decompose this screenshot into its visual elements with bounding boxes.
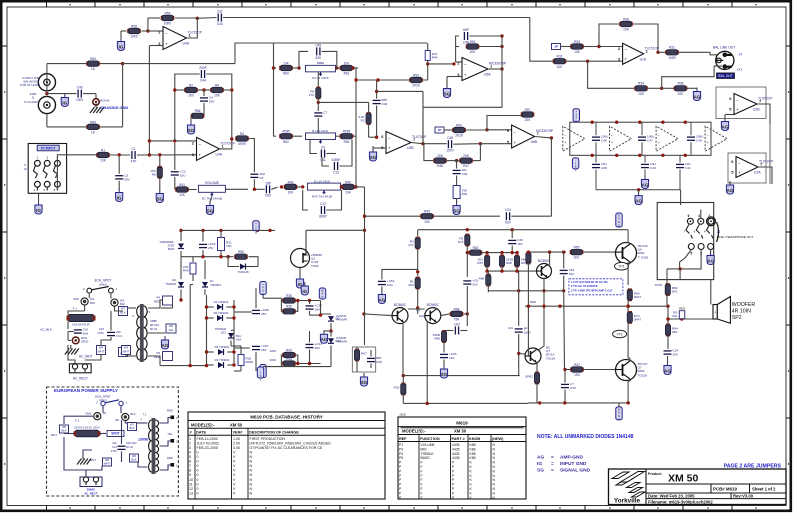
svg-text:W8: W8 (105, 458, 110, 462)
svg-text:N: N (250, 460, 253, 464)
svg-text:F: F (421, 491, 423, 495)
svg-text:XX3: XX3 (737, 68, 743, 72)
svg-text:P4: P4 (399, 452, 403, 456)
svg-text:FEB-14-2002: FEB-14-2002 (197, 437, 218, 441)
svg-text:10K0: 10K0 (269, 358, 276, 362)
svg-text:63V: 63V (315, 56, 322, 60)
svg-text:R87: R87 (477, 261, 483, 265)
svg-text:16V: 16V (569, 272, 575, 276)
svg-text:10K: 10K (283, 61, 290, 65)
svg-text:10K: 10K (345, 191, 352, 195)
svg-text:TO92: TO92 (311, 264, 319, 268)
svg-text:F: F (421, 474, 423, 478)
svg-text:K6A: K6A (236, 338, 241, 342)
svg-text:U5B: U5B (407, 146, 414, 150)
svg-text:+: + (624, 57, 627, 62)
svg-text:R40: R40 (345, 180, 351, 184)
svg-text:100V: 100V (446, 149, 454, 153)
svg-text:1: 1 (189, 437, 191, 441)
svg-text:2: 2 (189, 441, 191, 445)
svg-text:BAL LINE OUT: BAL LINE OUT (713, 46, 735, 50)
svg-text:6463: 6463 (419, 314, 426, 318)
svg-text:TO126: TO126 (546, 356, 555, 360)
svg-text:P2 INPUT: P2 INPUT (41, 147, 55, 151)
svg-text:SG: SG (361, 380, 368, 385)
svg-text:AG: AG (727, 188, 734, 193)
svg-text:0R1: 0R1 (672, 290, 678, 294)
svg-text:F: F (421, 478, 423, 482)
svg-text:4435: 4435 (452, 447, 460, 451)
svg-text:WHT: WHT (104, 462, 110, 466)
svg-text:PCB AT HORZ: PCB AT HORZ (20, 83, 40, 87)
svg-text:16V: 16V (449, 356, 455, 360)
svg-text:+: + (513, 140, 516, 145)
svg-text:C14: C14 (112, 445, 117, 449)
svg-text:25V: 25V (261, 312, 267, 316)
svg-text:K88: K88 (470, 456, 476, 460)
svg-text:U4/TL072_R56/10K0_R58/10K0_C43: U4/TL072_R56/10K0_R58/10K0_C43/2U2 ADDED (250, 441, 332, 445)
svg-text:R25: R25 (394, 386, 400, 390)
svg-text:0R1: 0R1 (672, 330, 678, 334)
svg-text:+: + (388, 146, 391, 151)
svg-text:C34: C34 (387, 283, 393, 287)
svg-text:R32: R32 (557, 55, 563, 59)
svg-text:R68: R68 (434, 337, 440, 341)
svg-text:R51: R51 (470, 40, 476, 44)
svg-text:BC560C: BC560C (427, 303, 440, 307)
svg-text:RED: RED (167, 456, 173, 460)
svg-text:+: + (736, 107, 739, 112)
svg-text:AC_RECT: AC_RECT (84, 491, 98, 495)
svg-text:1K0: 1K0 (574, 256, 580, 260)
svg-text:(0Am): (0Am) (99, 282, 107, 286)
svg-text:−: − (165, 31, 168, 36)
svg-text:3A/6: 3A/6 (73, 297, 79, 301)
svg-text:FIRST PRODUCTION: FIRST PRODUCTION (250, 437, 286, 441)
svg-text:100V: 100V (76, 98, 84, 102)
svg-text:BLK: BLK (131, 412, 136, 416)
svg-text:2V04KB: 2V04KB (336, 314, 346, 318)
svg-text:6.8NF: 6.8NF (332, 158, 341, 162)
svg-text:N: N (250, 450, 253, 454)
svg-text:R53: R53 (413, 73, 419, 77)
svg-text:25V: 25V (208, 246, 214, 250)
svg-text:Product: Product (648, 472, 662, 476)
svg-text:T1: T1 (143, 413, 147, 417)
svg-text:R43: R43 (288, 180, 294, 184)
svg-text:W6: W6 (132, 454, 137, 458)
svg-text:CHASSIS GND: CHASSIS GND (101, 105, 129, 110)
svg-text:J106: J106 (399, 413, 406, 417)
svg-text:10K0: 10K0 (269, 349, 276, 353)
svg-text:C40: C40 (77, 86, 83, 90)
svg-text:W11: W11 (672, 314, 678, 318)
svg-text:PCB# M619: PCB# M619 (713, 487, 737, 492)
svg-text:PART #: PART # (452, 437, 466, 441)
svg-text:R41: R41 (179, 183, 185, 187)
svg-text:RED: RED (154, 300, 160, 304)
svg-text:C46: C46 (447, 136, 453, 140)
svg-text:−: − (513, 129, 516, 134)
svg-text:WHT: WHT (123, 350, 130, 354)
svg-text:4: 4 (189, 450, 191, 454)
svg-text:AG: AG (722, 125, 729, 130)
svg-text:N: N (250, 464, 253, 468)
svg-text:22n: 22n (113, 441, 118, 445)
svg-text:U4A: U4A (183, 42, 190, 46)
svg-text:0: 0 (197, 491, 199, 495)
svg-text:R50: R50 (456, 123, 462, 127)
svg-text:AC_WHT: AC_WHT (79, 355, 93, 359)
svg-text:XM 50: XM 50 (668, 473, 699, 485)
svg-text:N: N (250, 487, 253, 491)
svg-text:F: F (421, 487, 423, 491)
svg-text:B.LIN 14C8: B.LIN 14C8 (314, 180, 330, 184)
svg-text:GR62: GR62 (525, 375, 533, 379)
svg-text:REF: REF (399, 437, 407, 441)
svg-text:MID: MID (421, 447, 428, 451)
svg-text:4K9: 4K9 (408, 283, 414, 287)
svg-text:275V: 275V (111, 449, 117, 453)
svg-text:C13: C13 (333, 170, 339, 174)
svg-text:C40: C40 (650, 166, 656, 170)
svg-text:20K: 20K (470, 50, 477, 54)
svg-text:1K0: 1K0 (188, 94, 194, 98)
svg-text:C12: C12 (320, 202, 326, 206)
svg-text:R42: R42 (286, 348, 292, 352)
svg-text:6: 6 (189, 460, 191, 464)
svg-text:10K: 10K (288, 191, 295, 195)
svg-text:4435: 4435 (452, 452, 460, 456)
svg-text:F: F (421, 469, 423, 473)
svg-text:−: − (624, 47, 627, 52)
svg-text:10K: 10K (100, 159, 107, 163)
svg-text:W7: W7 (130, 422, 135, 426)
svg-text:C49: C49 (462, 172, 468, 176)
svg-text:R4: R4 (240, 132, 244, 136)
svg-text:20K: 20K (463, 154, 470, 158)
svg-text:680P: 680P (319, 214, 326, 218)
svg-text:SG: SG (156, 197, 163, 202)
svg-text:C11: C11 (320, 158, 326, 162)
svg-text:2 TO mm Y8 ACROSS: 2 TO mm Y8 ACROSS (571, 284, 598, 288)
svg-text:U1A: U1A (640, 57, 647, 61)
svg-text:IG: IG (302, 289, 307, 294)
svg-text:4R 10IN: 4R 10IN (732, 309, 751, 315)
svg-text:DATE: DATE (196, 430, 207, 434)
svg-text:R57: R57 (525, 108, 531, 112)
svg-text:AMP-GND: AMP-GND (560, 455, 583, 461)
svg-text:+: + (464, 72, 467, 77)
svg-text:F: F (421, 496, 423, 500)
svg-text:BAR: BAR (168, 247, 174, 251)
svg-text:36D: 36D (673, 311, 678, 315)
svg-text:25V: 25V (261, 348, 267, 352)
svg-text:2u2: 2u2 (217, 10, 223, 14)
svg-text:N: N (250, 469, 253, 473)
svg-text:15K: 15K (226, 244, 232, 248)
svg-text:M619: M619 (456, 420, 468, 425)
svg-text:0: 0 (197, 478, 199, 482)
svg-text:B.LIN 14C8: B.LIN 14C8 (313, 76, 329, 80)
svg-text:R62: R62 (473, 246, 479, 250)
svg-text:+: + (198, 152, 201, 157)
svg-text:63V: 63V (505, 221, 512, 225)
svg-text:MC33078P: MC33078P (536, 129, 554, 133)
svg-text:N: N (250, 491, 253, 495)
svg-text:5: 5 (690, 252, 692, 256)
svg-text:C45: C45 (315, 43, 321, 47)
svg-text:+: + (165, 41, 168, 46)
svg-text:10K: 10K (179, 193, 186, 197)
svg-text:−: − (388, 136, 391, 141)
svg-text:4K99: 4K99 (238, 142, 246, 146)
svg-text:AG: AG (707, 259, 714, 264)
svg-text:P1: P1 (399, 443, 403, 447)
svg-text:C43: C43 (217, 22, 223, 26)
svg-text:1K5: 1K5 (458, 240, 464, 244)
svg-text:0: 0 (197, 460, 199, 464)
svg-text:47K: 47K (309, 93, 315, 97)
svg-text:Date: Wed Feb 23, 2005: Date: Wed Feb 23, 2005 (648, 493, 695, 498)
svg-text:R50: R50 (238, 250, 244, 254)
svg-text:6n8: 6n8 (83, 332, 88, 336)
svg-text:R58: R58 (454, 307, 460, 311)
svg-text:0: 0 (197, 487, 199, 491)
svg-text:R48: R48 (437, 164, 443, 168)
svg-text:SG: SG (207, 209, 214, 214)
svg-text:IG: IG (537, 461, 542, 467)
svg-text:AG: AG (664, 369, 671, 374)
svg-text:R31: R31 (669, 46, 675, 50)
svg-text:160V: 160V (524, 331, 532, 335)
svg-text:(NEW): (NEW) (492, 437, 504, 441)
svg-text:W2: W2 (115, 418, 120, 422)
svg-text:4: 4 (698, 214, 700, 218)
svg-text:RED: RED (154, 355, 160, 359)
svg-text:RED: RED (167, 409, 173, 413)
svg-text:10K: 10K (638, 92, 645, 96)
svg-text:CSA 8A FD 6V: CSA 8A FD 6V (72, 323, 90, 327)
svg-text:R64: R64 (90, 57, 96, 61)
svg-text:J2: J2 (24, 167, 27, 171)
svg-text:SG: SG (441, 372, 448, 377)
svg-text:JP: JP (554, 45, 558, 49)
svg-text:275V: 275V (97, 331, 104, 335)
svg-text:SG: SG (444, 92, 451, 97)
svg-text:D6 YM4002: D6 YM4002 (215, 345, 230, 349)
svg-text:2K26: 2K26 (412, 84, 420, 88)
svg-text:FUNCTION: FUNCTION (420, 437, 440, 441)
svg-text:R36: R36 (286, 305, 292, 309)
svg-text:R86: R86 (479, 277, 485, 281)
svg-text:SG: SG (188, 128, 195, 133)
svg-text:TP1: TP1 (618, 265, 624, 269)
svg-text:RED: RED (530, 300, 536, 304)
svg-text:AC_BLK: AC_BLK (40, 328, 52, 332)
svg-text:R66: R66 (195, 109, 201, 113)
svg-text:C6: C6 (259, 176, 263, 180)
svg-text:C60: C60 (265, 194, 271, 198)
svg-text:R88: R88 (506, 261, 512, 265)
svg-text:16V: 16V (315, 346, 321, 350)
svg-text:10K: 10K (344, 61, 351, 65)
svg-text:VER#: VER# (233, 430, 244, 434)
svg-text:INPUT GND: INPUT GND (560, 461, 587, 467)
svg-text:10K: 10K (574, 50, 581, 54)
svg-text:60 Hz: 60 Hz (150, 327, 158, 331)
svg-text:WHT: WHT (90, 458, 96, 462)
svg-text:AG: AG (537, 455, 544, 461)
svg-text:VOLUME: VOLUME (421, 443, 436, 447)
svg-text:R2: R2 (361, 119, 365, 123)
svg-text:GR20: GR20 (81, 340, 89, 344)
svg-text:R45: R45 (424, 210, 430, 214)
svg-text:0: 0 (197, 464, 199, 468)
svg-text:R4?: R4? (574, 363, 580, 367)
svg-text:4435: 4435 (452, 456, 460, 460)
svg-text:BLK: BLK (131, 458, 136, 462)
svg-text:SG: SG (537, 468, 544, 474)
svg-text:TO218: TO218 (638, 373, 648, 377)
svg-text:100R: 100R (668, 56, 676, 60)
svg-text:BAL OUT: BAL OUT (718, 74, 733, 78)
svg-text:75R: 75R (454, 318, 461, 322)
svg-text:10K0: 10K0 (164, 22, 172, 26)
svg-text:Rev:V3.00: Rev:V3.00 (733, 493, 754, 498)
svg-text:453R: 453R (282, 130, 290, 134)
svg-text:B.LIN 14C8: B.LIN 14C8 (312, 129, 328, 133)
svg-text:C28: C28 (376, 360, 382, 364)
svg-text:3A/6: 3A/6 (85, 412, 91, 416)
svg-text:R60: R60 (283, 72, 289, 76)
svg-text:SP2: SP2 (732, 315, 742, 321)
svg-text:BLK: BLK (120, 302, 125, 306)
svg-text:P5: P5 (399, 456, 403, 460)
svg-text:XM 50: XM 50 (230, 422, 243, 427)
svg-text:J3: J3 (717, 230, 721, 234)
svg-text:R62: R62 (283, 140, 289, 144)
svg-text:K88: K88 (470, 447, 476, 451)
svg-text:4V8 BAR: 4V8 BAR (336, 340, 347, 344)
svg-text:BASS: BASS (421, 456, 431, 460)
svg-text:W1: W1 (103, 411, 108, 415)
svg-text:TL072CP: TL072CP (645, 46, 660, 50)
svg-text:JULY-03-2002: JULY-03-2002 (197, 441, 220, 445)
svg-text:TL072CP: TL072CP (221, 141, 236, 145)
svg-text:Sheet 1 of 2: Sheet 1 of 2 (752, 487, 776, 492)
svg-text:R35: R35 (286, 294, 292, 298)
svg-text:0R47: 0R47 (634, 318, 642, 322)
svg-text:C33: C33 (570, 386, 576, 390)
svg-text:20K: 20K (437, 154, 444, 158)
svg-text:K88: K88 (470, 443, 476, 447)
svg-text:10K: 10K (557, 65, 564, 69)
svg-text:U6B: U6B (531, 140, 538, 144)
svg-text:YM4148: YM4148 (237, 270, 249, 274)
svg-text:YM4004: YM4004 (210, 283, 221, 287)
svg-text:3.00: 3.00 (233, 446, 240, 450)
svg-text:D5 YM4002: D5 YM4002 (214, 311, 229, 315)
svg-text:C62: C62 (454, 323, 460, 327)
svg-text:N: N (250, 478, 253, 482)
svg-text:R34: R34 (638, 82, 644, 86)
svg-text:W7R9: W7R9 (655, 283, 663, 287)
svg-text:BC560C: BC560C (394, 303, 407, 307)
svg-text:C7: C7 (323, 111, 327, 115)
svg-text:AC_RECT: AC_RECT (73, 377, 88, 381)
svg-text:C46: C46 (382, 102, 388, 106)
svg-text:U2A: U2A (754, 171, 761, 175)
svg-text:EUROPEAN POWER SUPPLY: EUROPEAN POWER SUPPLY (54, 388, 118, 393)
svg-text:−: − (738, 160, 741, 165)
svg-text:10K: 10K (623, 28, 630, 32)
svg-text:MODEL(S):-: MODEL(S):- (191, 422, 215, 427)
svg-text:IG: IG (117, 196, 122, 201)
svg-text:BC550C: BC550C (538, 259, 551, 263)
svg-text:R61: R61 (344, 72, 350, 76)
svg-text:50 Hz: 50 Hz (126, 445, 134, 449)
svg-text:0: 0 (197, 455, 199, 459)
svg-text:TP2: TP2 (617, 332, 623, 336)
svg-text:RV3 7A1 4A1B: RV3 7A1 4A1B (312, 195, 332, 199)
svg-text:RED: RED (679, 306, 685, 310)
svg-text:R28: R28 (623, 17, 629, 21)
svg-text:F: F (421, 465, 423, 469)
svg-text:1K0: 1K0 (574, 373, 580, 377)
svg-text:20K: 20K (525, 118, 532, 122)
svg-text:10K: 10K (678, 92, 685, 96)
svg-text:C44: C44 (200, 78, 206, 82)
svg-text:YM4004: YM4004 (165, 282, 176, 286)
svg-text:C1: C1 (131, 147, 135, 151)
svg-text:+: + (714, 311, 716, 315)
svg-text:0R47: 0R47 (634, 295, 642, 299)
svg-text:CE-F5 6.3A AC 230 V: CE-F5 6.3A AC 230 V (74, 426, 100, 430)
svg-text:11: 11 (189, 482, 193, 486)
svg-text:C41: C41 (685, 166, 691, 170)
svg-text:F: F (421, 461, 423, 465)
svg-text:−: − (736, 97, 739, 102)
svg-text:IG: IG (62, 101, 67, 106)
svg-text:25V: 25V (472, 283, 478, 287)
svg-text:R4: R4 (215, 83, 219, 87)
svg-text:−: − (198, 142, 201, 147)
svg-text:F 1: F 1 (75, 419, 80, 423)
svg-text:8: 8 (189, 469, 191, 473)
svg-text:50V: 50V (124, 177, 130, 181)
svg-text:47P: 47P (131, 159, 137, 163)
svg-text:AG: AG (642, 183, 649, 188)
svg-text:4V8 BAR: 4V8 BAR (336, 318, 347, 322)
svg-text:5: 5 (189, 455, 191, 459)
svg-text:68P: 68P (463, 28, 469, 32)
svg-text:47K: 47K (408, 243, 414, 247)
svg-text:BLK: BLK (90, 301, 95, 305)
svg-text:R56: R56 (165, 11, 171, 15)
svg-text:DESCRIPTION OF CHANGE: DESCRIPTION OF CHANGE (249, 430, 299, 434)
svg-text:M619 PCB_DATABASE_HISTORY: M619 PCB_DATABASE_HISTORY (250, 414, 323, 419)
svg-text:R44: R44 (432, 56, 438, 60)
svg-text:R43: R43 (286, 357, 292, 361)
svg-text:BLK: BLK (129, 426, 134, 430)
svg-text:C31: C31 (508, 326, 514, 330)
svg-text:R65: R65 (574, 246, 580, 250)
svg-text:WOOFER: WOOFER (732, 302, 756, 308)
svg-text:R38: R38 (678, 82, 684, 86)
svg-text:IG: IG (119, 45, 124, 50)
svg-text:SG: SG (453, 209, 460, 214)
